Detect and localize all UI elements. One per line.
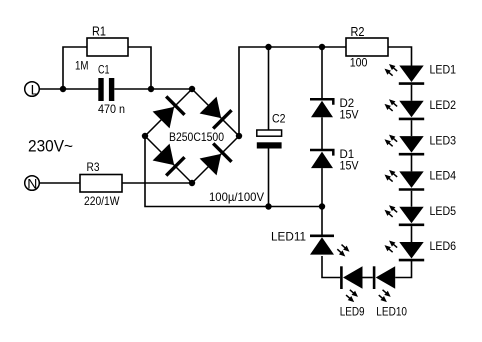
svg-text:C2: C2: [272, 112, 286, 126]
junction L rail left: [60, 86, 66, 92]
wire LED11 to minus rail: [321, 207, 323, 235]
wire LED2 to LED3: [411, 120, 413, 136]
bridge diode top-to-right: [200, 97, 232, 129]
LED LED4: [385, 169, 457, 190]
wire R1 right leg: [128, 47, 151, 89]
LED LED6: [385, 239, 457, 260]
svg-text:LED9: LED9: [340, 305, 365, 319]
wire L to C1: [39, 88, 98, 90]
svg-text:15V: 15V: [340, 159, 359, 173]
svg-text:L: L: [31, 81, 39, 97]
svg-text:470 n: 470 n: [98, 102, 125, 116]
junction bridge left node: [142, 133, 148, 139]
svg-text:LED4: LED4: [430, 169, 457, 183]
svg-text:1M: 1M: [75, 59, 89, 73]
wire LED3 to LED4: [411, 156, 413, 172]
bridge diode left-to-bottom: [153, 144, 185, 176]
svg-text:100µ/100V: 100µ/100V: [209, 190, 264, 204]
bridge diode left-to-top: [153, 96, 185, 128]
junction bridge top node: [189, 86, 195, 92]
junction C2 bottom: [265, 203, 271, 209]
svg-text:LED1: LED1: [430, 63, 457, 77]
LED LED2: [385, 98, 457, 119]
wire bridge left node to minus rail: [145, 136, 322, 207]
wire LED10 to LED9: [363, 277, 373, 279]
svg-text:LED11: LED11: [271, 230, 306, 244]
resistor R2: [346, 25, 388, 70]
LED LED1: [385, 63, 457, 84]
zener diode D2: [310, 96, 359, 122]
terminal N: [25, 175, 40, 191]
LED LED10: [374, 266, 407, 318]
junction zener top: [319, 44, 325, 50]
svg-text:LED6: LED6: [430, 239, 457, 253]
svg-text:LED2: LED2: [430, 98, 457, 112]
junction bridge right node: [236, 133, 242, 139]
wire LED6 to LED10: [395, 261, 411, 278]
junction C2 top: [265, 44, 271, 50]
svg-text:LED5: LED5: [430, 204, 457, 218]
svg-text:LED10: LED10: [376, 305, 407, 319]
wire C1 to bridge top node: [114, 88, 192, 90]
svg-text:R3: R3: [87, 160, 100, 174]
wire R2 to LED chain top: [388, 47, 412, 66]
junction minus rail at LED11: [319, 203, 325, 209]
bridge rectifier B250C1500 outline: [145, 89, 239, 183]
capacitor C2: [209, 47, 286, 207]
svg-text:15V: 15V: [340, 108, 359, 122]
wire D1 to minus rail: [321, 168, 323, 206]
LED LED3: [385, 133, 457, 154]
svg-text:N: N: [27, 175, 37, 191]
resistor R3: [80, 160, 122, 208]
wire LED4 to LED5: [411, 191, 413, 207]
svg-text:B250C1500: B250C1500: [169, 130, 224, 144]
junction bridge bottom node: [189, 180, 195, 186]
wire LED1 to LED2: [411, 85, 413, 101]
LED LED5: [385, 204, 457, 225]
svg-text:230V~: 230V~: [28, 137, 73, 156]
LED LED11: [271, 230, 350, 257]
junction L rail right: [148, 86, 154, 92]
wire R3 to bridge bottom node: [122, 182, 192, 184]
wire R1 left leg: [63, 47, 87, 89]
resistor R1: [75, 25, 128, 73]
wire LED9 to LED11: [322, 256, 340, 278]
svg-text:100: 100: [350, 55, 368, 69]
svg-text:R2: R2: [351, 25, 365, 39]
wire D2 to D1: [321, 117, 323, 149]
LED LED9: [340, 266, 365, 318]
wire N to R3: [39, 182, 80, 184]
svg-text:LED3: LED3: [430, 133, 457, 147]
wire LED5 to LED6: [411, 226, 413, 242]
terminal L: [25, 81, 40, 97]
svg-text:220/1W: 220/1W: [84, 194, 120, 208]
zener diode D1: [310, 147, 359, 173]
wire plus rail to D2: [321, 47, 323, 99]
svg-text:C1: C1: [98, 63, 110, 77]
svg-text:R1: R1: [92, 25, 106, 39]
bridge diode bottom-to-right: [200, 143, 232, 175]
capacitor C1: [98, 63, 125, 117]
wire bridge right node to plus rail: [239, 47, 346, 136]
